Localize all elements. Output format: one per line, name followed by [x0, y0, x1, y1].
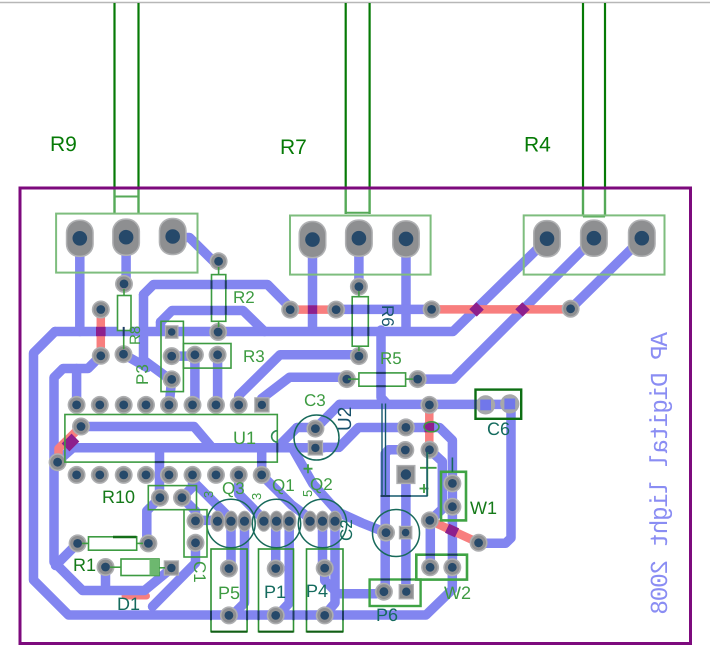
- pad U1 pin top row 3: [115, 396, 133, 414]
- connector P1 outline: [259, 549, 294, 632]
- capacitor C1 outline: [184, 510, 207, 557]
- wire R4 pad2 diag to R5: [418, 239, 594, 379]
- wire R9 pad1 down: [75, 240, 85, 332]
- connector P3 outline: [161, 321, 183, 391]
- wire red diag pad81: [59, 427, 82, 462]
- wire U1 pin to Q2 base: [262, 475, 310, 519]
- pad Q3 pin3: [237, 511, 252, 532]
- pad Q3 pin1: [210, 511, 225, 532]
- pad D1 left: [97, 558, 115, 576]
- junction overlap red diag W1 column: [445, 524, 459, 538]
- pad P1 bottom: [267, 606, 285, 624]
- pad U2 pin d: [421, 441, 439, 459]
- pad U1 pin top row 4: [137, 396, 155, 414]
- junction overlap red diag band448: [62, 434, 80, 452]
- pad U1 pin bottom row 2: [91, 466, 109, 484]
- connector R7 outline: [290, 216, 431, 275]
- resistor R5 body: [359, 373, 406, 386]
- connector R9 outline: [56, 214, 197, 273]
- junction overlap red y309 trace x312: [308, 305, 317, 314]
- SECTION: component outlines: [56, 214, 664, 632]
- pad Q2 pin3: [328, 511, 343, 532]
- wire R9 net right: [137, 3, 139, 189]
- wire Q3 pad3 to gnd: [234, 522, 245, 614]
- pad Q1 pin3: [282, 511, 297, 532]
- wire R8 pad diag join: [124, 354, 148, 367]
- pad D1 right square: [164, 560, 179, 575]
- svg-text:AP Digital light 2008: AP Digital light 2008: [648, 332, 675, 614]
- pad U1 pin top row 5: [160, 396, 178, 414]
- text AP Digital light 2008 mirrored: [648, 332, 675, 614]
- wire U1 pin to Q1 base: [239, 475, 264, 520]
- pad P1 top: [267, 560, 285, 578]
- wire main band y331 to R4 pad1: [55, 240, 547, 332]
- wire red U2 vertical: [425, 407, 434, 448]
- pad R5 right: [409, 370, 427, 388]
- svg-text:R4: R4: [524, 134, 551, 157]
- wire R4 net right: [604, 3, 606, 189]
- wire R4 net left: [582, 3, 584, 189]
- wire Q3 mid to P5: [226, 522, 236, 569]
- pad W1 top: [443, 474, 461, 492]
- pad C3 plus: [306, 420, 324, 438]
- via y309 c: [423, 300, 441, 318]
- connector R9 pad 1: [66, 220, 94, 258]
- wire band y426 from pad81: [81, 427, 212, 448]
- wire outer ground loop: [34, 332, 453, 616]
- wire U2 square pad column to P6: [401, 475, 411, 592]
- wire P3 pad3 to U1: [169, 379, 172, 404]
- via y309 d: [562, 300, 580, 318]
- wire D1 left pad stub: [101, 567, 111, 587]
- pad W2 left: [421, 558, 439, 576]
- pad U1 pin top row 7: [207, 396, 225, 414]
- svg-text:C1: C1: [190, 561, 209, 583]
- wire U1 pin1 up to inner loop: [72, 369, 82, 406]
- pad U1 pin bottom row 3: [115, 466, 133, 484]
- svg-text:R9: R9: [50, 133, 77, 156]
- wire U1 pin to Q3 base: [193, 475, 232, 519]
- pad P4 bottom: [316, 606, 334, 624]
- wire C1 pad2 to gnd loop: [153, 543, 196, 607]
- top hairline: [0, 2, 710, 4]
- via W1 right: [470, 534, 488, 552]
- IC U2 outline: [382, 404, 427, 497]
- wire band y404 C6 chain: [340, 404, 512, 543]
- IC U1 outline: [65, 415, 277, 463]
- pad R6 bottom: [350, 347, 368, 365]
- resistor R8 body: [118, 296, 132, 331]
- wire blue mid segment y309: [336, 305, 432, 315]
- board area fill: [20, 188, 691, 644]
- pad C1 bottom: [187, 534, 205, 552]
- pad U1 pin top row 1: [68, 396, 86, 414]
- connector R4 pad 1: [533, 220, 561, 258]
- svg-text:U2: U2: [335, 407, 356, 431]
- pad C6 left: [476, 395, 495, 414]
- connector R4 outline: [524, 215, 665, 274]
- via red top: [92, 301, 110, 319]
- wire U2 pad to C2 P6 column: [385, 450, 405, 592]
- wire Q1 pad3 to gnd: [280, 521, 289, 613]
- svg-text:C6: C6: [487, 419, 510, 439]
- pad Q1 pin2: [269, 511, 284, 532]
- transistor Q3 outline circle: [207, 499, 255, 547]
- wire C3 round pad diag to band404: [315, 404, 339, 428]
- pad Q1 pin1: [257, 511, 272, 532]
- pad U1 pin bottom row 5: [160, 466, 178, 484]
- pad U2 pin b: [396, 441, 414, 459]
- pad U1 pin bottom row 8: [230, 466, 248, 484]
- wire red segment y309 left: [290, 305, 336, 314]
- svg-text:W2: W2: [444, 583, 471, 603]
- svg-text:R10: R10: [102, 487, 135, 507]
- svg-text:P4: P4: [306, 581, 328, 601]
- svg-text:P1: P1: [264, 582, 286, 602]
- wire C1 pad1 to Q3: [196, 516, 218, 526]
- via y309 b: [327, 301, 345, 319]
- wire R7 stub bar: [346, 212, 370, 214]
- svg-text:U1: U1: [233, 428, 256, 448]
- svg-text:Q1: Q1: [272, 476, 295, 495]
- SECTION: component circles (under pads): [207, 415, 420, 557]
- via W1 left: [421, 511, 439, 529]
- wire R7 stub right: [368, 188, 370, 214]
- wire red stub D1 under: [125, 593, 147, 600]
- pad P5 top: [220, 560, 238, 578]
- SECTION: pads: [49, 218, 656, 625]
- pad R10 left: [151, 489, 169, 507]
- svg-text:P6: P6: [376, 605, 398, 625]
- pad W2 right: [443, 558, 461, 576]
- pad C6 right: [500, 394, 519, 413]
- junction overlap red y309 diag x522: [515, 302, 529, 316]
- wire band y355 P3 R3: [172, 351, 195, 361]
- wire R3 pad1 down: [190, 355, 200, 405]
- connector P6 outline: [370, 580, 421, 607]
- pad R8 bottom: [115, 345, 133, 363]
- pad Q2 pin2: [315, 511, 330, 532]
- wire R4 pad3 diag: [571, 239, 642, 309]
- transistor Q1 outline circle: [252, 499, 300, 547]
- pad U1 pin top row 6: [184, 396, 202, 414]
- SECTION: blue traces: [34, 238, 642, 616]
- via band426 left: [72, 418, 90, 436]
- wire P3 pad1 riser: [156, 322, 166, 330]
- pad U1 pin bottom row 9: [253, 466, 271, 484]
- wire R10 pad2 up to U1: [182, 475, 193, 498]
- wire R1 left pad to loop: [56, 543, 78, 565]
- svg-text:P5: P5: [218, 583, 240, 603]
- svg-text:R6: R6: [378, 305, 397, 327]
- svg-text:D1: D1: [117, 594, 140, 614]
- resistor R3 outline: [183, 344, 231, 369]
- capacitor C6 outline: [476, 390, 522, 419]
- pad P3 pin1 square: [165, 325, 179, 339]
- pad P3 pin2: [163, 347, 181, 365]
- wire U1 end pin feed: [257, 450, 267, 475]
- pad C2 round: [377, 524, 395, 542]
- SECTION: schematic wires (green): [115, 3, 606, 189]
- pad P5 bottom: [220, 606, 238, 624]
- connector R9 pad 3: [159, 218, 187, 256]
- wire band y310 P3: [161, 311, 265, 332]
- pad R10 right: [173, 489, 191, 507]
- capacitor C3 plus: [304, 464, 313, 473]
- pad U1 pin bottom row 7: [207, 466, 225, 484]
- pad U1 pin bottom row 6: [184, 466, 202, 484]
- capacitor C3 outline circle: [294, 415, 339, 460]
- wire U1 pin to R5: [262, 377, 347, 404]
- wire U1 pin down to R10: [155, 450, 165, 498]
- IC U1 notch: [272, 431, 278, 442]
- wire vertical x381: [381, 330, 388, 404]
- svg-text:R1: R1: [73, 555, 96, 575]
- wire Q1 mid to P1: [271, 521, 281, 568]
- wire R9 stub bar: [115, 196, 139, 198]
- wire Q2 mid to P4: [318, 521, 328, 568]
- pad U2 pin c: [420, 396, 438, 414]
- junction overlap red U2 band427: [425, 423, 435, 433]
- wire R9 stub left: [113, 188, 115, 214]
- via y309 a: [281, 301, 299, 319]
- svg-text:3: 3: [249, 493, 264, 500]
- SECTION: labels: [73, 288, 510, 625]
- wire band y284: [144, 285, 291, 308]
- svg-text:R7: R7: [280, 136, 307, 159]
- pad P6 round: [375, 583, 393, 601]
- wire R10 pad2 down to C1: [182, 498, 196, 521]
- svg-text:C3: C3: [304, 391, 326, 410]
- wire R9 net left: [113, 3, 115, 189]
- svg-text:P3: P3: [133, 364, 152, 385]
- resistor R6 body: [352, 297, 368, 347]
- junction overlap red y309 diag x476: [469, 302, 483, 316]
- connector P5 outline: [211, 549, 247, 632]
- svg-text:R2: R2: [233, 288, 255, 307]
- connector R4 pad 3: [628, 219, 656, 257]
- wire R10 pad1 to R1: [147, 498, 160, 544]
- wire R3 pad2 down: [213, 355, 223, 405]
- wire band y448 long: [58, 448, 324, 461]
- pin marker ellipse U2: [424, 422, 439, 432]
- capacitor C2 plus: [420, 452, 437, 496]
- svg-text:C2: C2: [337, 519, 356, 541]
- wire R7 net right: [369, 3, 371, 189]
- junction overlap red x100 band331: [96, 327, 106, 336]
- wire U1 pin to R6: [239, 355, 359, 405]
- connector R9 pad 2: [112, 218, 140, 256]
- pad C1 top: [187, 512, 205, 530]
- connector R7 pad 2: [345, 219, 373, 257]
- svg-text:W1: W1: [470, 498, 497, 518]
- pad R2 bottom: [209, 323, 227, 341]
- SECTION: red traces: [59, 309, 571, 542]
- wire C3 square pad diag to band427 east: [321, 428, 452, 568]
- pad R3 left: [186, 346, 204, 364]
- wire R9 pad3 to R2: [173, 238, 219, 262]
- resistor R1 body: [89, 537, 137, 550]
- wire red segment y309 right: [432, 305, 571, 314]
- pad U1 pin top row 9 square: [254, 397, 269, 412]
- svg-text:R3: R3: [243, 347, 265, 366]
- resistor R2 body: [212, 275, 226, 322]
- wire R9 pad2 down: [121, 239, 131, 284]
- connector R7 pad 3: [392, 220, 420, 258]
- jumper W2 outline: [416, 555, 467, 580]
- wire red vertical x100: [97, 310, 106, 355]
- wire R4 stub right: [604, 188, 606, 217]
- pad R6 top: [350, 278, 368, 296]
- jumper W1 stub: [451, 458, 453, 472]
- pad R1 left: [69, 534, 87, 552]
- capacitor C2 outline circle: [373, 510, 420, 557]
- svg-text:3: 3: [201, 491, 216, 498]
- connector P4 outline: [307, 549, 344, 632]
- jumper W1 outline: [441, 472, 466, 521]
- transistor Q2 outline circle: [298, 499, 346, 547]
- pad R1 right: [139, 534, 157, 552]
- via gnd left: [49, 453, 67, 471]
- connector R4 pad 2: [580, 219, 608, 257]
- svg-text:Q3: Q3: [222, 479, 245, 498]
- SECTION: overlap patches: [62, 302, 530, 537]
- pad Q3 pin2: [224, 511, 239, 532]
- wire P4 top pad to P6: [325, 568, 384, 594]
- svg-text:5: 5: [300, 490, 315, 497]
- pad C3 minus square: [308, 440, 323, 455]
- board edge: [20, 188, 691, 644]
- wire R9 stub right: [137, 188, 139, 214]
- diode D1 body: [121, 559, 159, 576]
- pad R5 left: [338, 370, 356, 388]
- pad Q2 pin1: [303, 511, 318, 532]
- wire R7 net left: [345, 3, 347, 189]
- wire R4 stub bar: [583, 216, 605, 218]
- pad P4 top: [316, 559, 334, 577]
- pad U1 pin top row 2: [91, 396, 109, 414]
- pad R2 top: [210, 252, 228, 270]
- wire U2 pad449 to pad520 jog: [430, 450, 443, 568]
- resistor R10 outline: [148, 486, 196, 510]
- wire R7 pad3 down: [401, 240, 411, 330]
- svg-text:R5: R5: [380, 349, 402, 368]
- pad R8 top: [115, 275, 133, 293]
- pad P6 square: [399, 584, 414, 599]
- wire R7 pad1 down: [308, 240, 318, 330]
- via red bottom: [92, 347, 110, 365]
- pad U2 square big: [396, 465, 415, 484]
- wire inner ground loop: [54, 356, 171, 591]
- pad P3 pin3: [163, 370, 181, 388]
- svg-text:R8: R8: [127, 326, 144, 345]
- pad U2 pin a: [397, 418, 415, 436]
- wire diag band448 to C2 pad: [293, 449, 386, 533]
- wire vertical x143 jog to P3: [144, 295, 167, 377]
- pad R3 right: [209, 346, 227, 364]
- pad C2 square: [399, 526, 413, 540]
- wire band y427 west into C3: [297, 423, 315, 433]
- silk over copper dark ticks: [124, 280, 476, 620]
- wire R7 pad2 to R6: [354, 240, 364, 287]
- pad U1 pin top row 8: [230, 396, 248, 414]
- wire Q2 pad3 to gnd: [327, 521, 336, 613]
- connector R7 pad 1: [299, 221, 327, 259]
- wire R7 stub left: [345, 188, 347, 214]
- pad U1 pin bottom row 4: [137, 466, 155, 484]
- wire R4 stub left: [582, 188, 584, 217]
- pad U1 pin bottom row 1: [68, 466, 86, 484]
- wire red diag W1 area: [430, 520, 479, 542]
- pad W1 bottom: [443, 498, 461, 516]
- wire diag up x277: [277, 428, 297, 448]
